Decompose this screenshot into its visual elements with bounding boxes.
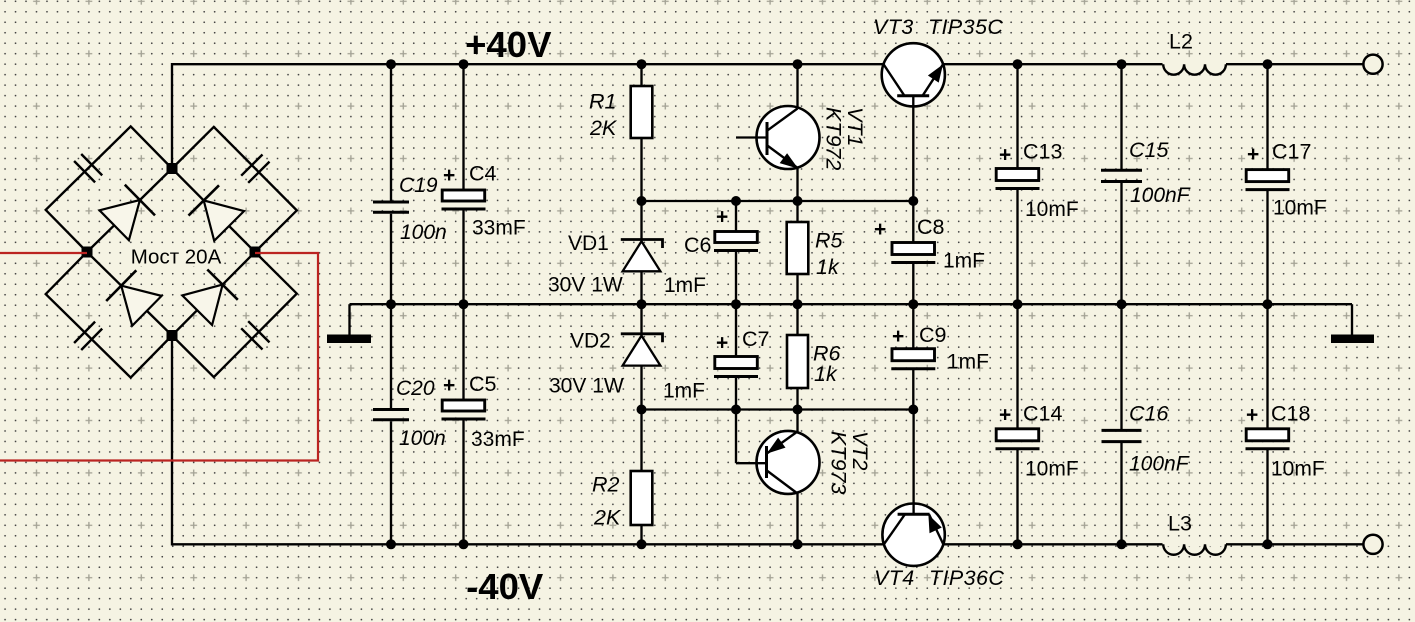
svg-text:C9: C9	[919, 323, 946, 347]
wire ground mid rail	[350, 303, 1353, 305]
capacitor C16 100nF	[1120, 304, 1122, 429]
terminal output +	[1363, 55, 1382, 74]
junction dots mid rail	[386, 299, 396, 309]
svg-text:+: +	[1247, 143, 1259, 166]
svg-text:R1: R1	[589, 90, 616, 114]
node bridge left (~) junction	[82, 247, 93, 258]
capacitor C6 1mF (polarized)	[735, 201, 737, 232]
svg-text:VT2: VT2	[848, 431, 872, 470]
svg-text:10mF: 10mF	[1025, 198, 1079, 221]
bridge diode D4 lower-right	[182, 285, 222, 325]
capacitor C19 100n	[390, 64, 392, 200]
svg-text:C4: C4	[469, 162, 497, 186]
svg-text:VT4 TIP36C: VT4 TIP36C	[874, 566, 1004, 590]
resistor R5 1k	[796, 201, 798, 222]
svg-text:C8: C8	[917, 215, 945, 239]
svg-text:30V 1W: 30V 1W	[548, 274, 623, 297]
svg-text:R5: R5	[815, 229, 844, 253]
junction dots lower net	[637, 405, 647, 415]
terminal output -	[1363, 535, 1382, 554]
svg-text:30V 1W: 30V 1W	[549, 375, 624, 398]
capacitor C15 100nF	[1120, 64, 1122, 169]
svg-text:1mF: 1mF	[943, 250, 985, 273]
svg-text:100nF: 100nF	[1129, 453, 1190, 476]
capacitor C14 10mF (polarized)	[1016, 304, 1018, 429]
resistor R2 2K	[640, 410, 642, 472]
svg-text:2K: 2K	[593, 506, 622, 530]
bridge snubber capacitor lower-right branch	[172, 252, 297, 377]
svg-text:+: +	[1246, 404, 1258, 427]
svg-text:C13: C13	[1023, 140, 1062, 164]
resistor R6 1k	[796, 304, 798, 335]
ground symbol left	[348, 304, 350, 335]
bridge snubber capacitor upper-left branch	[46, 126, 172, 252]
svg-text:KT972: KT972	[822, 107, 846, 170]
svg-text:C19: C19	[399, 174, 438, 197]
capacitor C4 33mF (polarized)	[462, 64, 464, 191]
svg-text:C17: C17	[1272, 140, 1311, 164]
svg-text:33mF: 33mF	[472, 217, 526, 240]
svg-text:100n: 100n	[400, 221, 447, 244]
svg-text:C15: C15	[1129, 138, 1169, 162]
inductor L2	[1163, 62, 1227, 66]
svg-text:+: +	[443, 164, 455, 187]
transistor VT4 TIP36C	[882, 504, 944, 566]
ground symbol right	[1351, 304, 1353, 335]
bridge label Мост 20А	[128, 244, 224, 266]
node bridge right (~) junction	[250, 247, 261, 258]
svg-text:10mF: 10mF	[1271, 458, 1325, 481]
svg-text:Мост 20А: Мост 20А	[131, 246, 222, 269]
junction dots bottom rail	[386, 539, 396, 549]
capacitor C17 10mF (polarized)	[1266, 64, 1268, 170]
svg-text:C16: C16	[1129, 402, 1168, 426]
svg-text:2K: 2K	[589, 116, 618, 140]
svg-text:VT3 TIP35C: VT3 TIP35C	[873, 15, 1003, 39]
svg-text:100n: 100n	[399, 427, 446, 450]
transistor VT2 KT973	[757, 431, 820, 494]
svg-text:VD2: VD2	[570, 330, 611, 353]
svg-text:KT973: KT973	[827, 431, 851, 494]
resistor R1 2K	[640, 64, 642, 87]
bridge diode D3 lower-left	[121, 286, 161, 326]
wire +40V top rail	[172, 64, 1364, 168]
transistor VT3 TIP35C	[882, 43, 945, 106]
transistor VT1 KT972	[757, 106, 820, 169]
svg-text:C5: C5	[469, 372, 497, 396]
svg-text:10mF: 10mF	[1273, 197, 1327, 220]
svg-text:C20: C20	[396, 377, 435, 400]
bridge diode D2 upper-right	[204, 200, 244, 240]
capacitor C7 1mF (polarized)	[735, 304, 737, 357]
svg-text:+: +	[716, 206, 728, 229]
svg-text:+40V: +40V	[465, 24, 552, 65]
wire upper intermediate net	[642, 200, 914, 202]
svg-text:+: +	[443, 374, 455, 397]
svg-text:-40V: -40V	[466, 566, 544, 607]
svg-text:C7: C7	[742, 327, 769, 351]
bridge rectifier Мост 20А outline	[87, 169, 255, 336]
svg-text:+: +	[999, 144, 1011, 167]
capacitor C5 33mF (polarized)	[462, 304, 464, 400]
capacitor C9 1mF (polarized)	[912, 304, 914, 349]
wire AC input right loop (red)	[0, 253, 318, 461]
svg-text:VD1: VD1	[568, 232, 609, 255]
capacitor C8 1mF (polarized)	[912, 201, 914, 243]
svg-text:1k: 1k	[814, 362, 838, 386]
svg-text:VT1: VT1	[843, 107, 867, 146]
bridge snubber capacitor lower-left branch	[46, 252, 172, 378]
wire lower intermediate net	[642, 408, 914, 410]
svg-text:33mF: 33mF	[471, 428, 525, 451]
junction dots top rail	[386, 59, 396, 69]
node bridge top (+) junction	[167, 163, 178, 174]
svg-text:L2: L2	[1169, 30, 1193, 54]
svg-text:R2: R2	[592, 473, 620, 497]
bridge diode D1 upper-left	[100, 200, 140, 240]
svg-text:+: +	[999, 404, 1011, 427]
zener diode VD2 30V 1W	[640, 304, 642, 334]
node bridge bottom (-) junction	[167, 330, 178, 341]
svg-text:+: +	[874, 218, 886, 241]
svg-text:1mF: 1mF	[664, 274, 706, 297]
svg-text:1mF: 1mF	[663, 380, 705, 403]
bridge snubber capacitor upper-right branch	[172, 127, 297, 252]
svg-text:+: +	[716, 332, 728, 355]
wire -40V bottom rail	[172, 336, 1364, 545]
svg-text:L3: L3	[1168, 512, 1192, 536]
inductor L3	[1163, 542, 1227, 546]
svg-text:C6: C6	[684, 233, 712, 257]
svg-text:C18: C18	[1271, 402, 1310, 426]
junction dots upper net	[637, 196, 647, 206]
svg-text:100nF: 100nF	[1130, 184, 1191, 207]
svg-text:10mF: 10mF	[1025, 457, 1079, 480]
svg-text:1k: 1k	[816, 255, 840, 279]
capacitor C18 10mF (polarized)	[1266, 304, 1268, 429]
svg-text:+: +	[892, 325, 904, 348]
wire AC input left (red)	[0, 252, 87, 254]
svg-text:C14: C14	[1023, 402, 1062, 426]
capacitor C13 10mF (polarized)	[1016, 64, 1018, 169]
zener diode VD1 30V 1W	[640, 201, 642, 240]
capacitor C20 100n	[390, 304, 392, 408]
svg-text:1mF: 1mF	[947, 351, 989, 374]
